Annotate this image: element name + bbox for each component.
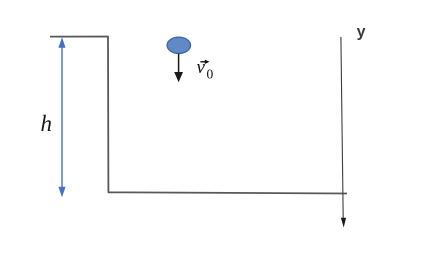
svg-text:y: y: [357, 23, 366, 40]
svg-text:h: h: [41, 111, 53, 136]
initial velocity arrow: [174, 54, 183, 83]
h dimension double arrow: [58, 37, 65, 197]
ball (ellipse): [167, 37, 190, 53]
platform / well outline: [50, 37, 347, 194]
svg-text:0: 0: [207, 67, 214, 82]
y axis line: [341, 37, 346, 228]
svg-text:v: v: [197, 57, 206, 78]
label v0 (vector v sub 0): [197, 57, 214, 82]
